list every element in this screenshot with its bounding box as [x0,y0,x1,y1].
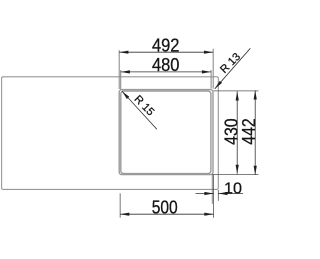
dimension 442 arrows [254,90,257,99]
extension line left for 500 [119,193,121,217]
svg-text:480: 480 [152,55,180,75]
leader R13 line [215,48,251,89]
sink outline (worktop/sink body rectangle) [2,77,219,190]
svg-text:10: 10 [224,180,242,197]
extension line right for 492 [212,49,214,89]
dimension 430 line [236,91,238,174]
dimension 500 arrows [120,213,129,216]
extension line right for 480 [210,70,212,89]
dimension 492 line [119,51,213,53]
extension line top for 430/442 [214,90,259,92]
extension line below bowl outer contour [211,175,213,204]
bowl inner contour (480 x 430, R15) [121,91,211,174]
dimension 442 line [254,90,256,175]
dimension 492 arrows [119,51,128,54]
dimension 500 line [120,213,213,215]
extension line left for 480 [120,70,122,90]
extension line left for 492 [118,50,120,89]
leader R13 arrowhead [214,81,222,90]
dimension 480 line [121,71,211,73]
extension line bottom for 430/442 [212,174,259,176]
bowl outer contour (492 x 442, R13) [119,90,213,175]
dimension 10 left tail line [196,193,214,195]
leader R15 arrowhead [121,90,130,99]
svg-text:500: 500 [152,197,178,217]
dimension 10 right tail line [218,193,243,195]
dimension 480 arrows [121,70,130,73]
svg-text:492: 492 [152,36,180,56]
svg-text:442: 442 [239,118,259,145]
leader R15 line [122,91,157,129]
dimension 10 arrows (converging) [204,192,213,195]
svg-text:R 13: R 13 [218,51,243,76]
dimension 430 arrows [236,91,239,100]
extension line right for 10 (sink edge extended) [217,190,219,201]
extension line right for 500 / left for 10 [213,175,215,218]
